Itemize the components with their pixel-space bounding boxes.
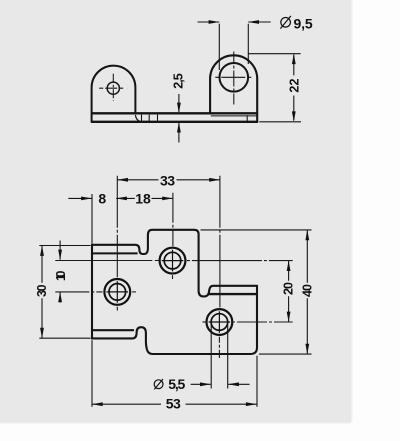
hole H2 horizontal centerline left (extension to 10 dim) [55,291,102,293]
dimension 20: top arrow [287,261,291,271]
svg-text:33: 33 [160,173,175,189]
dimension 22: top extension line [248,53,301,55]
dimension 22: dim line [293,55,295,121]
svg-text:2,5: 2,5 [171,73,185,89]
hole H3 bottom-right (outer circle) [207,309,233,335]
plan view: right ear bend line [209,293,257,295]
hole H1 top (outer circle) [160,248,186,274]
hole H1 center cross [162,250,184,272]
dimension 2,5: lower dim line [178,123,180,143]
dimension d9,5: left extension line [218,24,220,70]
side view: left ear outline (left edge, top arc, right edge) [92,66,136,122]
svg-text:53: 53 [166,396,181,412]
dimension 30: bottom extension line [39,337,90,339]
hole H3 horizontal centerline left tail [202,321,206,323]
dimension 10: upper dim line [59,241,61,260]
dimension 30: top arrow [40,246,44,256]
dimension 10: lower dim line [59,292,61,302]
dimension d9,5: arrow pointing right at left tangent [209,20,220,24]
dimension d5,5: right tangent extension line [227,324,229,389]
svg-text:8: 8 [98,190,106,206]
dimension 8/18: dim line between with text gap [116,197,173,199]
side view: right ear outline (left edge, top arc, right edge) [210,55,257,121]
hole H1 horizontal centerline left (extension to 10 dim) [55,260,159,262]
side view: right ear bend tick [246,115,248,121]
hole H1 horizontal centerline right (extension to 20 dim) [187,260,293,262]
side view: left ear bend tick 2 [148,115,150,122]
dimension 30: top extension line [39,245,90,247]
dimension 8: outside dim line left [68,197,92,199]
dimension 30: dim line with text gap [41,246,43,339]
hole H3 horizontal centerline right (extension to 20 dim) [232,321,293,323]
svg-text:40: 40 [300,284,314,297]
hole H3 bottom-right (inner circle d5,5) [211,314,228,331]
dimension 40: dim line with text gap [306,230,308,354]
hole H3 center cross [209,311,231,333]
hole H1 top (inner circle d5,5) [164,252,181,269]
dimension 2,5: upper dim line [178,94,180,112]
dimension d5,5: arrow pointing left at right tangent [228,382,239,386]
dimension 8/18: arrow pointing left at hole H2 centerline [116,197,127,201]
dimension d9,5: right extension line [247,24,249,64]
hole H2 horizontal centerline right tail [132,291,136,293]
svg-text:10: 10 [54,271,68,282]
dimension 53: dim line with text gap [92,403,257,405]
svg-text:22: 22 [287,79,301,93]
dimension 22: bottom arrow [292,111,296,121]
plan view: top-left ear bend line [92,252,138,254]
dimension 8: arrow pointing right at plate edge [81,197,92,201]
svg-text:18: 18 [135,190,151,206]
dimension 33: dim line with text gap [117,179,220,181]
dimension 33: right arrow [209,178,220,182]
dimension 22: top arrow [292,54,296,64]
dimension 33: left arrow [117,178,128,182]
dimension 53: right extension line [256,356,258,407]
dimension 53: left extension line [91,340,93,407]
side view: big hole (diameter 9,5) [220,63,249,92]
dimension 18: arrow pointing right at hole H1 centerline [162,197,173,201]
label d5,5 [154,376,185,392]
plan view: bottom-left ear bend line [92,329,134,331]
dimension d9,5: dim line left segment [198,21,220,23]
side view: right ear bend thin line [211,115,257,117]
side view: big hole horizontal centerline [215,76,252,78]
hole H2 left (outer circle) [104,279,130,305]
dimension 20: dim line with text gap [288,261,290,322]
dimension 53: right arrow [246,402,257,406]
dimension 53: left arrow [92,402,103,406]
side view: big hole vertical centerline [233,52,235,105]
side view: base plate top edge [91,112,257,114]
plan view: plate outline silhouette [92,230,257,354]
label d9,5 [280,15,313,31]
dimension 8: extension line (plate left edge) [91,194,93,244]
dimension 10: bottom arrow pointing up [58,292,62,302]
hole H3 vertical centerline (extension to 33 dim) [219,176,221,308]
side view: small hole in left ear [107,82,119,94]
dimension 10: top arrow pointing down [58,250,62,260]
svg-text:5,5: 5,5 [168,376,185,392]
dimension d5,5: right tail line [228,383,249,385]
svg-text:30: 30 [35,284,49,297]
dimension d9,5: dim line right segment [248,21,270,23]
svg-text:9,5: 9,5 [294,15,313,31]
hole H3 vertical centerline lower tail [218,337,220,358]
side view: left ear bend tick 3 [157,115,159,122]
side view: small hole horizontal centerline [99,87,127,89]
svg-text:20: 20 [282,282,296,295]
dimension 40: top extension line [201,229,312,231]
dimension 20: bottom arrow [287,312,291,322]
dimension 30: bottom arrow [40,328,44,338]
dimension 40: bottom extension line [259,353,312,355]
dimension 22: bottom extension line [259,121,301,123]
dimension d5,5: left tangent extension line [210,324,212,389]
hole H2 center cross [107,281,129,303]
hole H2 vertical centerline (extension to 33 dim) [116,176,118,277]
dimension 2,5: arrow down to plate top [177,103,181,113]
side view: left ear bend arc at base [135,115,140,121]
dimension 40: bottom arrow [305,344,309,354]
dimension 2,5: arrow up to plate bottom [177,122,181,132]
hole H2 left (inner circle d5,5) [109,284,126,301]
dimension d5,5: leader line to left tangent [191,383,211,385]
hole H1 vertical centerline lower tail [172,275,174,279]
side view: base plate bottom edge [91,121,258,123]
side view: left ear bend tick 1 [141,115,143,122]
hole H2 vertical centerline lower tail [116,307,118,311]
dimension 40: top arrow [305,230,309,240]
dimension d5,5: arrow pointing right at left tangent [200,382,211,386]
dimension d9,5: arrow pointing left at right tangent [248,20,259,24]
side view: small hole vertical centerline [112,74,114,101]
hole H1 vertical centerline (extension to 18 dim) [172,193,174,246]
